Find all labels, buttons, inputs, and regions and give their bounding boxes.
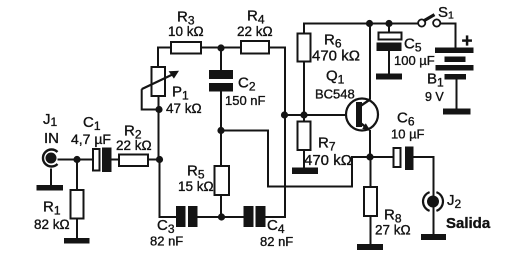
wire	[370, 157, 372, 187]
resistor R5	[215, 166, 230, 195]
label R4 value	[237, 24, 273, 39]
wire	[265, 48, 286, 218]
wire	[285, 114, 356, 116]
label C5	[404, 36, 422, 55]
svg-text:J2: J2	[447, 192, 462, 211]
potentiometer P1	[142, 67, 179, 110]
node emitter	[366, 153, 373, 160]
label C3	[157, 217, 175, 236]
label C6 value	[391, 127, 425, 142]
label C6	[397, 110, 415, 129]
wire	[160, 160, 178, 218]
label P1 value	[166, 101, 202, 116]
transistor Q1	[346, 99, 378, 131]
node C5 rail	[385, 20, 392, 27]
svg-text:82 nF: 82 nF	[150, 234, 183, 249]
label C4 value	[260, 234, 293, 249]
label C2 value	[225, 93, 266, 108]
label R6	[324, 32, 342, 51]
ground	[64, 238, 90, 244]
resistor R8	[364, 187, 377, 216]
svg-text:47 kΩ: 47 kΩ	[166, 101, 202, 116]
wire	[433, 207, 435, 235]
capacitor C2	[210, 71, 232, 91]
svg-text:Salida: Salida	[446, 215, 491, 232]
wire	[303, 62, 305, 122]
svg-text:R1: R1	[43, 199, 61, 218]
capacitor C3	[177, 207, 197, 226]
label R2	[124, 123, 142, 142]
node base left	[281, 111, 288, 118]
label J2	[447, 192, 462, 211]
label R4	[247, 8, 265, 27]
svg-text:470 kΩ: 470 kΩ	[304, 152, 352, 169]
wire	[50, 169, 52, 186]
node R3 R4 C2	[217, 44, 224, 51]
svg-text:J1: J1	[43, 111, 58, 129]
capacitor C1	[93, 149, 111, 172]
capacitor C5	[378, 33, 402, 51]
label R5	[187, 163, 205, 182]
label R3	[177, 9, 195, 28]
wire	[369, 130, 371, 157]
wire	[303, 150, 305, 168]
capacitor C4	[245, 207, 265, 226]
label IN	[44, 130, 59, 147]
label R7	[318, 135, 336, 154]
svg-text:22 kΩ: 22 kΩ	[116, 138, 152, 153]
wire	[370, 216, 372, 245]
label C3 value	[150, 234, 183, 249]
wire	[412, 157, 434, 197]
label B1 value	[425, 90, 444, 104]
node P1 wiper	[155, 106, 162, 113]
svg-text:22 kΩ: 22 kΩ	[237, 24, 273, 39]
svg-text:470 kΩ: 470 kΩ	[312, 48, 360, 65]
label S1	[438, 4, 454, 22]
ground	[357, 244, 383, 250]
ground	[376, 74, 402, 80]
wire	[304, 24, 418, 34]
wire	[441, 24, 456, 49]
svg-text:+: +	[462, 31, 473, 52]
node base bias	[300, 111, 307, 118]
wire	[388, 50, 390, 74]
wire	[220, 131, 222, 167]
svg-text:S1: S1	[438, 4, 454, 22]
svg-text:IN: IN	[44, 130, 59, 147]
wire	[220, 91, 222, 131]
label R8	[384, 207, 402, 226]
wire	[388, 24, 390, 33]
svg-text:4,7 µF: 4,7 µF	[71, 131, 111, 147]
svg-text:P1: P1	[172, 84, 189, 103]
label P1	[172, 84, 189, 103]
wire	[369, 24, 371, 100]
ground	[292, 168, 318, 175]
resistor R3	[171, 42, 201, 54]
ground	[421, 234, 446, 240]
label R5 value	[178, 179, 214, 194]
resistor R4	[241, 41, 269, 54]
node collector rail	[366, 20, 373, 27]
svg-text:B1: B1	[427, 71, 444, 90]
resistor R1	[71, 190, 84, 219]
label R6 value	[312, 48, 360, 65]
label C1 value	[71, 131, 111, 147]
wire	[76, 219, 78, 239]
connector J2	[423, 192, 443, 211]
node input junction	[73, 156, 80, 163]
wire	[201, 47, 241, 49]
label B1	[427, 71, 444, 90]
svg-text:82 nF: 82 nF	[260, 234, 293, 249]
svg-text:10 µF: 10 µF	[391, 127, 425, 142]
connector J1	[43, 149, 58, 166]
svg-text:27 kΩ: 27 kΩ	[375, 223, 411, 238]
label C1	[83, 114, 101, 133]
svg-text:Q1: Q1	[326, 68, 345, 87]
svg-text:C5: C5	[404, 36, 422, 55]
wire	[158, 48, 171, 68]
wire	[220, 48, 222, 72]
label Q1 type	[315, 87, 355, 102]
svg-text:R7: R7	[318, 135, 336, 154]
svg-text:9 V: 9 V	[425, 90, 444, 104]
label J1	[43, 111, 58, 129]
wire	[111, 159, 120, 161]
capacitor C6	[394, 148, 413, 170]
label C5 value	[394, 53, 435, 68]
label R3 value	[168, 24, 204, 39]
label Salida	[446, 215, 491, 232]
resistor R7	[298, 122, 311, 151]
wire	[51, 159, 93, 161]
label R1 value	[34, 217, 70, 232]
resistor R6	[298, 34, 311, 62]
wire	[76, 160, 78, 191]
label R2 value	[116, 138, 152, 153]
svg-text:BC548: BC548	[315, 87, 355, 102]
wire	[158, 96, 160, 160]
wire	[197, 216, 245, 218]
svg-text:C2: C2	[238, 75, 256, 94]
svg-text:82 kΩ: 82 kΩ	[34, 217, 70, 232]
label battery plus	[462, 31, 473, 52]
node C2 bottom	[217, 127, 224, 134]
wire	[220, 195, 222, 217]
svg-text:150 nF: 150 nF	[225, 93, 266, 108]
resistor R2	[119, 155, 148, 167]
ground	[443, 109, 471, 115]
switch S1	[418, 15, 440, 27]
svg-text:100 µF: 100 µF	[394, 53, 435, 68]
label R7 value	[304, 152, 352, 169]
wire	[456, 80, 458, 109]
battery B1	[435, 48, 474, 80]
ground	[37, 185, 64, 191]
svg-text:10 kΩ: 10 kΩ	[168, 24, 204, 39]
node filter input	[156, 156, 163, 163]
node C3 C4 R5	[218, 213, 225, 220]
label C4	[267, 217, 285, 236]
wire	[148, 159, 160, 161]
svg-text:15 kΩ: 15 kΩ	[178, 179, 214, 194]
label Q1	[326, 68, 345, 87]
label R8 value	[375, 223, 411, 238]
label R1	[43, 199, 61, 218]
wire	[221, 131, 370, 187]
wire	[370, 156, 394, 158]
label C2	[238, 75, 256, 94]
